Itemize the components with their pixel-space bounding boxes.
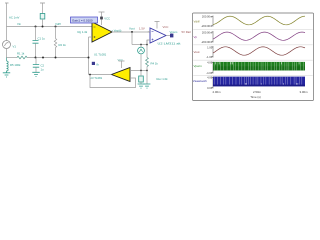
sawtooth source V3 (138, 47, 145, 54)
wire comp branch horizontal (132, 44, 147, 46)
svg-text:200.00m: 200.00m (202, 30, 213, 34)
svg-text:5V Rail: 5V Rail (182, 30, 191, 34)
U1 power flag (100, 17, 103, 20)
trace 2 curve (213, 32, 305, 40)
input terminal bar (5, 2, 9, 4)
waveform panel frame (193, 13, 314, 101)
voltage source V1 (3, 41, 11, 49)
wire saw top stub (140, 45, 142, 48)
svg-text:+ Vout(t): + Vout(t) (112, 29, 122, 33)
wire top rail (7, 26, 93, 28)
ground left (3, 72, 10, 78)
svg-text:Vout: Vout (194, 50, 200, 54)
wire U3 output (89, 74, 112, 76)
ground V4 (138, 84, 145, 88)
trace 4 axis (211, 62, 213, 74)
junction saw top (140, 44, 142, 46)
svg-text:Vout: Vout (129, 26, 135, 30)
row divider 3 (193, 59, 312, 61)
wire V2 bottom (42, 19, 44, 27)
trace 2 axis (211, 31, 213, 43)
svg-text:1u: 1u (41, 67, 45, 71)
trace 1 axis (211, 16, 213, 27)
U2 input marks (152, 32, 154, 41)
ground R4 (144, 84, 151, 88)
svg-text:R2 1k: R2 1k (59, 43, 67, 47)
resistor R2 vertical (55, 27, 57, 39)
junction output (131, 31, 133, 33)
wire C1 top (35, 27, 37, 41)
capacitor C1 (33, 41, 39, 44)
wire saw bottom (140, 54, 142, 71)
wire U2 plus stub (147, 40, 150, 45)
svg-text:U1 TL081: U1 TL081 (94, 52, 107, 56)
trace 4 pwm band (213, 62, 305, 71)
node flag Vpwm (170, 34, 173, 38)
trace 3 axis (211, 46, 213, 58)
U1 power bar (99, 12, 105, 25)
svg-text:-200.00m: -200.00m (201, 40, 213, 44)
trace 5 axis (211, 77, 213, 89)
wire U1 plus input (89, 36, 93, 38)
U3 power bar (119, 61, 125, 68)
svg-text:Vp: Vp (194, 35, 198, 39)
wire U1 output (112, 31, 150, 33)
U1 input marks (94, 27, 96, 38)
junction V2-rail (42, 26, 44, 28)
svg-text:C1 1u: C1 1u (38, 37, 46, 41)
trace 1 curve (213, 16, 305, 25)
wire C2 top (35, 58, 37, 65)
junction C1 top (35, 26, 37, 28)
row divider 1 (193, 28, 312, 30)
svg-text:Gain1 = 0.0100: Gain1 = 0.0100 (72, 18, 93, 22)
junction saw bottom (140, 70, 142, 72)
svg-text:VCC: VCC (118, 58, 124, 62)
junction R2 bottom (55, 57, 57, 59)
row divider 4 (193, 75, 312, 77)
ground C2 (32, 72, 39, 76)
wire comp branch vertical (131, 32, 133, 45)
svg-text:2.50m: 2.50m (253, 90, 262, 94)
inductor L1 to ground (7, 58, 9, 72)
svg-text:Vin: Vin (17, 22, 21, 26)
svg-text:3.00m: 3.00m (299, 90, 308, 94)
junction C1 bottom (35, 57, 37, 59)
wire bottom rail right (27, 57, 89, 59)
svg-text:AC 1mV: AC 1mV (9, 16, 20, 20)
U2 power bar (155, 22, 160, 29)
op-amp U2 comparator (150, 28, 166, 43)
svg-text:200.00m: 200.00m (202, 15, 213, 19)
wire U2 output (166, 35, 170, 37)
svg-text:R1 1k: R1 1k (17, 51, 25, 55)
row divider 2 (193, 44, 312, 46)
junction R4 bottom (146, 70, 148, 72)
svg-text:Vpwm: Vpwm (170, 30, 178, 34)
svg-text:-200.00m: -200.00m (201, 24, 213, 28)
wire V1 bottom (6, 49, 8, 58)
svg-text:Time (s): Time (s) (250, 95, 261, 99)
blue annotation box Gain (71, 17, 98, 23)
svg-text:2.00m: 2.00m (212, 90, 221, 94)
battery V2 (40, 14, 45, 20)
junction R2 top (55, 26, 57, 28)
junction mid bottom (42, 57, 44, 59)
svg-text:R5 100k: R5 100k (10, 63, 21, 67)
wire C2 bottom (35, 67, 37, 72)
svg-text:Vpwm: Vpwm (194, 64, 203, 68)
wire C1 bottom (35, 43, 37, 57)
svg-text:R4 1k: R4 1k (151, 61, 159, 65)
trace 5 pwm band (213, 77, 305, 87)
wire U3 upper input (130, 70, 147, 72)
trace 3 curve (213, 47, 305, 55)
svg-text:U2 LM311 alt: U2 LM311 alt (158, 41, 181, 45)
wire bottom rail left (7, 57, 18, 59)
junction R4 top (146, 44, 148, 46)
svg-text:U3 TL081: U3 TL081 (90, 76, 103, 80)
svg-text:1.00: 1.00 (207, 46, 213, 50)
svg-text:-4.00: -4.00 (206, 71, 213, 75)
svg-text:Vsawtooth: Vsawtooth (193, 79, 207, 83)
svg-text:-1.00: -1.00 (206, 55, 213, 59)
wire U1 plus vertical (88, 37, 90, 75)
wire V2 top (42, 3, 44, 14)
svg-text:VCC: VCC (163, 25, 169, 29)
wire V4 bottom (140, 82, 142, 84)
node flag fb (92, 62, 95, 65)
resistor R4 vertical (146, 40, 148, 58)
svg-text:V1: V1 (13, 45, 17, 49)
svg-text:VCC: VCC (104, 16, 110, 20)
terminal bar V2 (40, 2, 45, 4)
wire R4gnd vertical (146, 71, 148, 85)
svg-text:4.00: 4.00 (207, 61, 213, 65)
junction U3 out loop (89, 74, 91, 76)
wire V4 top (140, 71, 142, 77)
svg-text:Vdiff: Vdiff (194, 19, 200, 23)
svg-text:1.5V: 1.5V (139, 26, 145, 30)
svg-text:Rg 1.4k: Rg 1.4k (78, 30, 88, 34)
wire U3 feedback loop (90, 75, 136, 88)
junction plus rail (88, 57, 90, 59)
op-amp U1 (92, 22, 112, 42)
wire input vertical (6, 3, 8, 41)
svg-text:Rev 1.0k: Rev 1.0k (157, 77, 169, 81)
battery V4 offset (139, 76, 144, 82)
svg-text:4.00: 4.00 (207, 76, 213, 80)
wire U2 minus stub (148, 31, 151, 34)
resistor R1 inline (17, 56, 27, 59)
capacitor C2 (33, 65, 39, 68)
op-amp U3 buffer (112, 68, 131, 82)
